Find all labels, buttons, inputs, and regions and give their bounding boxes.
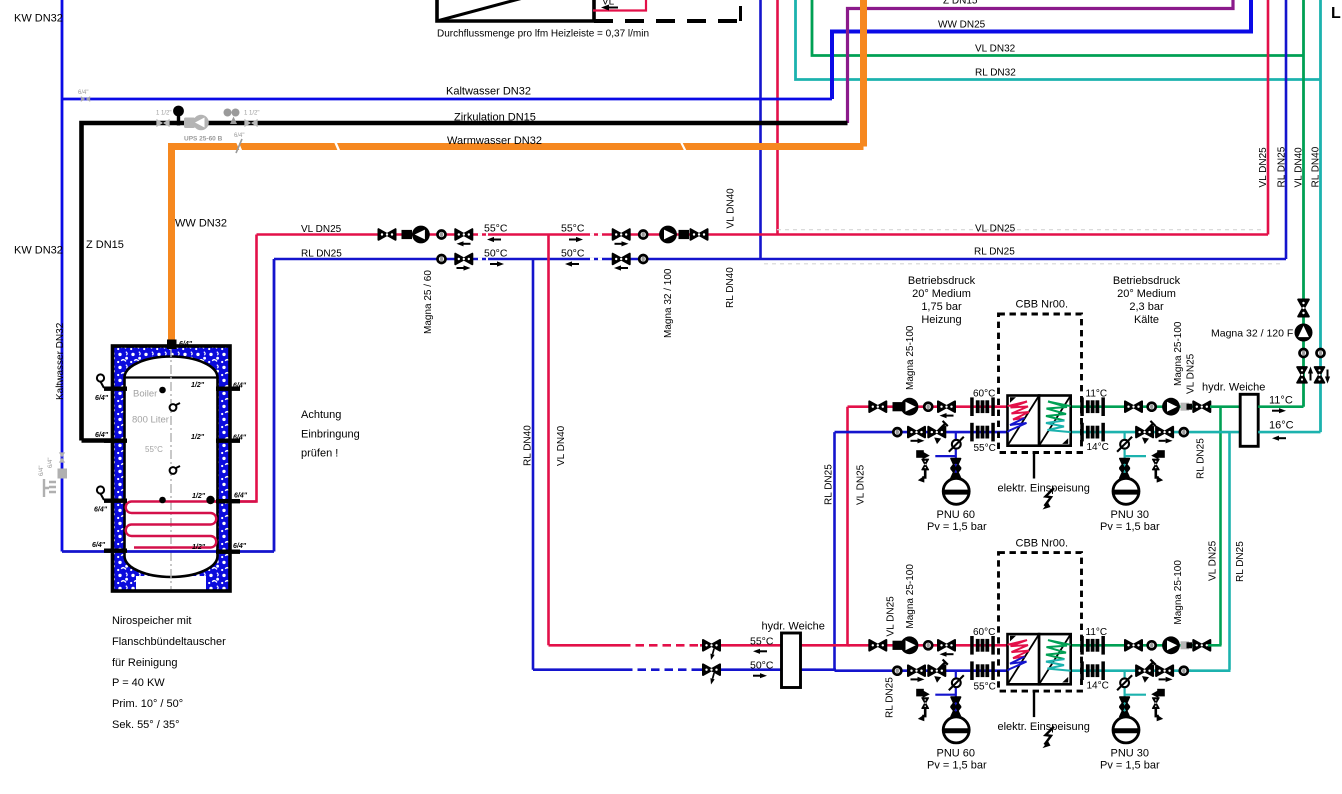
svg-text:Magna 25 / 60: Magna 25 / 60: [423, 270, 434, 334]
svg-text:Kaltwasser DN32: Kaltwasser DN32: [55, 322, 66, 400]
svg-text:RL DN25: RL DN25: [1277, 146, 1288, 187]
zirk thermometer ball: [173, 106, 184, 117]
left stub 3: [104, 499, 127, 503]
svg-text:Prim. 10° / 50°: Prim. 10° / 50°: [112, 698, 183, 710]
boiler outer frame: [113, 346, 231, 591]
flow arrow left: [601, 5, 618, 11]
riser VL heizleiste crimson: [776, 0, 779, 235]
svg-text:6/4": 6/4": [234, 133, 244, 139]
svg-text:UPS 25-60 B: UPS 25-60 B: [184, 136, 223, 143]
pipe Warmwasser DN32: [172, 147, 864, 346]
svg-text:20° Medium: 20° Medium: [912, 288, 971, 300]
svg-text:VL DN25: VL DN25: [1186, 353, 1197, 394]
sensor dots: [159, 387, 166, 394]
svg-text:hydr. Weiche: hydr. Weiche: [1202, 382, 1265, 394]
left stub 1: [104, 387, 127, 391]
svg-text:L: L: [1331, 5, 1341, 22]
lower module left feed VL: [549, 644, 623, 647]
svg-text:Z DN15: Z DN15: [943, 0, 978, 7]
svg-text:Zirkulation DN15: Zirkulation DN15: [454, 112, 536, 124]
svg-text:Sek. 55° / 35°: Sek. 55° / 35°: [112, 719, 180, 731]
group 1 check VL: [438, 231, 446, 239]
svg-text:55°C: 55°C: [750, 636, 774, 648]
riser VL DN40 green right: [1302, 0, 1305, 407]
zirk gray check + vent: [224, 109, 232, 117]
pump group 1 valve: [379, 229, 396, 240]
svg-text:Magna 32 / 100: Magna 32 / 100: [663, 268, 674, 338]
riser RL heizleiste blue: [759, 0, 762, 259]
pump group 1 pump Magna 25/60: [402, 230, 413, 239]
svg-text:Flanschbündeltauscher: Flanschbündeltauscher: [112, 636, 226, 648]
right stub 4: [216, 550, 240, 554]
pipe Zirkulation DN15: [82, 123, 848, 441]
svg-text:6/4": 6/4": [179, 341, 193, 348]
Weiche right pipes: [1258, 405, 1303, 408]
top chart box: [437, 0, 594, 21]
svg-text:Achtung: Achtung: [301, 409, 341, 421]
lower valve VL: [703, 640, 720, 651]
svg-text:VL DN25: VL DN25: [1208, 540, 1219, 581]
svg-text:Warmwasser DN32: Warmwasser DN32: [447, 135, 542, 147]
group 2 check RL: [639, 255, 647, 263]
orange WW riser: [860, 0, 867, 147]
hydraulische Weiche lower: [782, 633, 801, 688]
svg-text:WW DN32: WW DN32: [175, 218, 227, 230]
zirk gray valve 2: [244, 119, 257, 127]
svg-text:Heizung: Heizung: [921, 314, 961, 326]
pipe Kaltwasser vertical left: [61, 0, 64, 552]
green riser VL DN32: [812, 0, 1304, 56]
module lower: [835, 537, 1211, 771]
pipe VL crimson to coil: [213, 235, 257, 502]
group 2 valve RL: [613, 254, 630, 265]
upper cold pipes to Weiche: [1210, 405, 1240, 408]
svg-text:50°C: 50°C: [561, 248, 585, 260]
svg-text:6/4": 6/4": [233, 435, 247, 442]
check valves risers: [1300, 349, 1308, 357]
svg-text:6/4": 6/4": [233, 383, 247, 390]
svg-text:6/4": 6/4": [95, 432, 109, 439]
svg-text:hydr. Weiche: hydr. Weiche: [762, 621, 825, 633]
riser VL DN25 crimson right: [1267, 0, 1270, 235]
svg-text:55°C: 55°C: [561, 223, 585, 235]
svg-text:P = 40 KW: P = 40 KW: [112, 677, 165, 689]
drain valve 1: [97, 374, 104, 381]
svg-text:6/4": 6/4": [48, 458, 54, 468]
svg-text:Magna 32 / 120 F: Magna 32 / 120 F: [1211, 328, 1293, 340]
svg-text:RL DN25: RL DN25: [974, 247, 1015, 258]
zirk gray pump UPS: [184, 118, 195, 129]
boiler insulation: [113, 346, 231, 591]
chart red VL pipe: [593, 0, 646, 11]
svg-text:Kälte: Kälte: [1134, 314, 1159, 326]
svg-text:6/4": 6/4": [92, 542, 106, 549]
svg-text:50°C: 50°C: [750, 660, 774, 672]
svg-text:1,75 bar: 1,75 bar: [921, 301, 962, 313]
lower module left feed RL: [533, 668, 624, 671]
pipe Kaltwasser DN32 horizontal: [62, 98, 832, 101]
purple Z DN15 run: [848, 0, 1234, 123]
svg-text:1 1/2": 1 1/2": [156, 111, 171, 117]
svg-text:VL DN40: VL DN40: [1294, 147, 1305, 188]
svg-text:RL DN32: RL DN32: [975, 68, 1016, 79]
svg-text:VL DN40: VL DN40: [556, 425, 567, 466]
blue WW DN25 run: [832, 0, 1251, 99]
inter module drop RL: [833, 432, 836, 670]
svg-text:VL DN25: VL DN25: [301, 224, 342, 235]
lower right corners: [1208, 644, 1222, 647]
group 2 valve VL2: [691, 229, 708, 240]
svg-text:RL DN25: RL DN25: [824, 464, 835, 505]
valves with arrows risers: [1297, 367, 1307, 383]
svg-text:6/4": 6/4": [234, 493, 248, 500]
WW pipe white breaks: [236, 139, 340, 153]
svg-text:2,3 bar: 2,3 bar: [1129, 301, 1164, 313]
faint control dashed lines: [777, 229, 1264, 231]
gray fitting cluster on KW: [59, 452, 65, 462]
drop VL DN40: [547, 235, 550, 646]
svg-text:1/2": 1/2": [191, 382, 205, 389]
svg-text:für Reinigung: für Reinigung: [112, 657, 177, 669]
gray union on WW: [236, 139, 242, 153]
svg-text:50°C: 50°C: [484, 248, 508, 260]
dashed heating strip line: [594, 19, 742, 23]
right stub 1: [216, 387, 240, 391]
white dash breaks on VL/RL mains: [478, 233, 602, 236]
svg-text:VL DN40: VL DN40: [726, 188, 737, 229]
boiler tank: [125, 357, 218, 577]
svg-text:RL DN40: RL DN40: [523, 425, 534, 466]
lower valve RL: [703, 664, 720, 675]
hydraulische Weiche upper: [1240, 394, 1258, 446]
teal riser RL DN32: [796, 0, 1321, 80]
svg-text:Z DN15: Z DN15: [86, 239, 124, 251]
svg-text:RL DN25: RL DN25: [1235, 541, 1246, 582]
svg-text:Boiler: Boiler: [133, 389, 157, 400]
left stub 2: [104, 439, 127, 443]
svg-text:6/4": 6/4": [39, 466, 45, 476]
boiler centerline: [170, 348, 172, 589]
svg-text:Betriebsdruck: Betriebsdruck: [908, 275, 976, 287]
svg-text:RL DN25: RL DN25: [885, 677, 896, 718]
svg-text:RL DN25: RL DN25: [301, 249, 342, 260]
svg-text:VL DN25: VL DN25: [975, 224, 1016, 235]
svg-text:VL DN32: VL DN32: [975, 44, 1016, 55]
pump Magna 32/120 F: [1295, 324, 1313, 342]
svg-text:55°C: 55°C: [145, 445, 163, 454]
pipe VL DN25 main: [257, 233, 1269, 236]
svg-text:Durchflussmenge pro lfm Heizle: Durchflussmenge pro lfm Heizleiste = 0,3…: [437, 29, 649, 40]
svg-text:KW DN32: KW DN32: [14, 245, 63, 257]
valve on green riser: [1298, 300, 1309, 317]
pipe RL DN25 main: [274, 258, 1286, 261]
svg-text:1/2": 1/2": [192, 544, 206, 551]
pump Magna 32/100: [659, 226, 677, 244]
module upper: [835, 299, 1211, 533]
svg-text:RL DN25: RL DN25: [1196, 438, 1207, 479]
svg-text:KW DN32: KW DN32: [14, 13, 63, 25]
inter module drop RL cold teal: [1228, 432, 1231, 670]
svg-text:VL DN25: VL DN25: [856, 464, 867, 505]
svg-text:11°C: 11°C: [1269, 395, 1293, 407]
inter module drop VL: [846, 407, 849, 646]
svg-text:6/4": 6/4": [95, 395, 109, 402]
svg-text:800 Liter: 800 Liter: [132, 415, 169, 426]
svg-text:6/4": 6/4": [233, 543, 247, 550]
gray valve on KW: [81, 96, 90, 102]
svg-text:WW DN25: WW DN25: [938, 20, 986, 31]
svg-text:prüfen !: prüfen !: [301, 448, 338, 460]
inter module drop VL cold green: [1219, 407, 1222, 646]
boiler top stub: [167, 340, 177, 350]
left stub 4: [104, 549, 127, 553]
right stub 2: [216, 439, 240, 443]
svg-text:Nirospeicher mit: Nirospeicher mit: [112, 615, 191, 627]
svg-text:VL DN25: VL DN25: [886, 596, 897, 637]
svg-text:Einbringung: Einbringung: [301, 429, 360, 441]
svg-text:6/4": 6/4": [94, 507, 108, 514]
drop RL DN40: [532, 259, 535, 670]
group 1 check RL: [438, 255, 446, 263]
svg-text:1/2": 1/2": [191, 434, 205, 441]
svg-text:Betriebsdruck: Betriebsdruck: [1113, 275, 1181, 287]
zirk gray valve 1: [156, 119, 169, 127]
svg-text:55°C: 55°C: [484, 223, 508, 235]
right stub 3: [216, 499, 240, 503]
group 1 valve VL 2: [455, 229, 472, 240]
group 1 valve RL: [455, 254, 472, 265]
pump group 2 valve VL1: [613, 229, 630, 240]
pipe RL blue bottom run: [62, 550, 274, 553]
chart diagonal: [437, 0, 594, 21]
drain valve 3: [97, 486, 104, 493]
svg-text:RL DN40: RL DN40: [1311, 146, 1322, 187]
riser RL DN40 teal right: [1319, 0, 1322, 432]
svg-text:20° Medium: 20° Medium: [1117, 288, 1176, 300]
pipe RL blue riser right: [273, 259, 276, 552]
group 2 check VL: [639, 231, 647, 239]
svg-text:6/4": 6/4": [78, 90, 88, 96]
svg-text:1 1/2": 1 1/2": [244, 111, 259, 117]
svg-text:RL DN40: RL DN40: [725, 267, 736, 308]
svg-text:1/2": 1/2": [192, 493, 206, 500]
riser RL DN25 blue right: [1285, 0, 1288, 259]
svg-text:Kaltwasser DN32: Kaltwasser DN32: [446, 86, 531, 98]
svg-text:VL DN25: VL DN25: [1258, 147, 1269, 188]
heating coil: [126, 502, 257, 548]
svg-text:16°C: 16°C: [1269, 420, 1294, 432]
